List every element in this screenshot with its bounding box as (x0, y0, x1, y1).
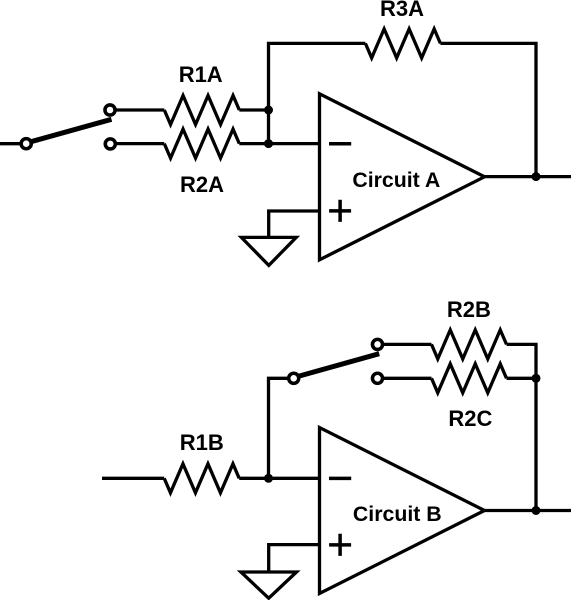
op-amp B plus symbol (329, 534, 351, 556)
wire: node up to switch SW-B pole (269, 378, 292, 478)
resistor R1B (164, 464, 239, 493)
wire: SW-B top throw to R2B (382, 343, 432, 346)
svg-text:Circuit A: Circuit A (352, 168, 440, 192)
switch SW-B bottom throw contact (372, 373, 382, 383)
wire: SW-B bottom throw to R2C (382, 377, 432, 380)
svg-text:Circuit B: Circuit B (353, 502, 442, 526)
wire: R2B to right vertical (507, 344, 537, 510)
wire: op-amp A non-inverting input to ground (269, 211, 320, 237)
wire: R2A to op-amp A inverting input (239, 142, 319, 145)
wire: circuit A input (0, 142, 22, 145)
node: R1B / inverting input junction (264, 474, 273, 483)
svg-text:R2C: R2C (448, 406, 492, 431)
op-amp A minus symbol (329, 142, 351, 146)
wire: R1B to op-amp B inverting input (239, 477, 319, 480)
wire: op-amp B non-inverting input to ground (269, 545, 320, 572)
resistor R2B (432, 330, 507, 359)
node: R2A / inverting input junction (264, 139, 273, 148)
op-amp A plus symbol (329, 200, 351, 222)
wire: op-amp A output (485, 175, 571, 178)
resistor R2A (164, 129, 239, 158)
op-amp U2 Circuit B (320, 428, 485, 594)
node: circuit B output junction (532, 506, 541, 515)
ground B (241, 572, 297, 598)
svg-text:R2B: R2B (447, 297, 491, 322)
switch SW-B blade (295, 354, 380, 378)
wire: R1A to node (239, 108, 268, 111)
switch SW-A top throw contact (105, 105, 115, 115)
wire: R3A to output node (440, 43, 536, 176)
switch SW-A blade (27, 119, 112, 143)
op-amp U1 Circuit A (320, 94, 485, 260)
switch SW-A pole contact (21, 139, 31, 149)
wire: R2C to right vertical (507, 377, 537, 380)
switch SW-B top throw contact (372, 339, 382, 349)
resistor R1A (164, 96, 239, 125)
node: R2C / feedback junction (532, 374, 541, 383)
svg-text:R2A: R2A (180, 172, 224, 197)
wire: circuit B input (102, 477, 164, 480)
node: circuit A output junction (532, 172, 541, 181)
resistor R2C (432, 364, 507, 393)
wire: op-amp B output (485, 509, 571, 512)
switch SW-B pole contact (289, 373, 299, 383)
op-amp B minus symbol (329, 477, 351, 481)
svg-text:R1A: R1A (179, 62, 223, 87)
wire: SW-A bottom throw to R2A (114, 142, 164, 145)
switch SW-A bottom throw contact (105, 139, 115, 149)
wire: SW-A top throw to R1A (114, 108, 164, 111)
svg-text:R3A: R3A (380, 0, 424, 21)
svg-text:R1B: R1B (180, 430, 224, 455)
resistor R3A (365, 29, 440, 58)
ground A (241, 237, 296, 265)
wire: left vertical of feedback loop A (269, 43, 366, 143)
node: R1A junction (264, 106, 273, 115)
